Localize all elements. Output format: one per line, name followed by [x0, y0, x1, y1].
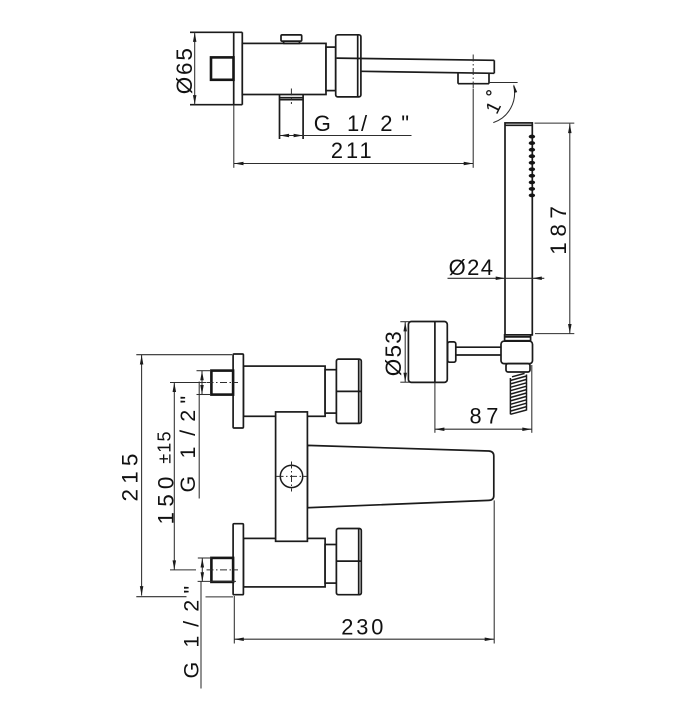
hand shower cap line — [505, 124, 532, 126]
dimension 187 extension top — [535, 122, 575, 124]
spout nut — [336, 35, 361, 97]
top valve nut — [336, 359, 361, 423]
top valve body — [243, 366, 325, 416]
top handle centerline — [207, 382, 239, 384]
dimension G 1/2 top view line — [280, 135, 412, 137]
svg-text:Ø65: Ø65 — [172, 46, 197, 94]
wall flange edge — [241, 32, 243, 104]
spout outlet left — [457, 73, 459, 84]
bottom valve connector — [325, 545, 336, 584]
top handle front — [211, 371, 233, 395]
dimension phi65 line — [194, 32, 196, 104]
dimension 150 line — [173, 383, 175, 570]
inlet pipe centerline — [290, 89, 292, 105]
dimension G 1/2 top valve ext — [197, 370, 211, 372]
central body — [276, 412, 308, 541]
handle top edge — [190, 31, 242, 33]
escutcheon inner line — [434, 322, 436, 383]
svg-text:G1/2": G1/2" — [176, 396, 200, 493]
dimension phi53 line — [404, 322, 406, 382]
dimension 230 line — [234, 638, 494, 640]
dimension 187 line — [569, 124, 571, 334]
svg-text:±15: ±15 — [154, 430, 174, 464]
dimension phi24 line — [448, 277, 545, 279]
tub spout front — [307, 445, 493, 507]
dimension 87 ext left — [434, 382, 436, 432]
dimension G 1/2 bottom valve line — [201, 558, 203, 582]
dimension 150 ext top — [170, 382, 206, 384]
bracket arm — [455, 346, 501, 348]
svg-text:211: 211 — [331, 138, 375, 163]
dimension 211 extension right — [472, 89, 474, 168]
mounting crosshair circle — [280, 465, 302, 487]
handle back edge — [233, 32, 235, 104]
dimension 87 ext right — [531, 365, 533, 433]
flexible hose spring — [510, 373, 526, 414]
hose nut — [506, 364, 530, 372]
mixer body — [242, 43, 326, 94]
angle reference line — [489, 82, 518, 84]
dimension 187 extension bottom — [535, 333, 574, 335]
dimension 215 ext top — [136, 354, 232, 356]
spout outlet bottom — [458, 83, 489, 85]
svg-text:150: 150 — [154, 471, 179, 524]
svg-text:87: 87 — [470, 404, 503, 429]
outlet connector — [326, 47, 336, 91]
degree circle — [487, 91, 491, 95]
spray nozzles — [529, 135, 535, 198]
svg-text:187: 187 — [546, 200, 571, 254]
bottom valve body — [243, 538, 325, 587]
dimension G 1/2 top valve line — [201, 371, 203, 395]
inlet pipe thread collar — [280, 97, 304, 99]
svg-text:G1/2": G1/2" — [179, 586, 203, 679]
dimension phi53 ext lines — [400, 321, 409, 323]
wall escutcheon phi53 — [408, 322, 447, 383]
spout bottom edge — [361, 71, 494, 73]
spout outlet right — [488, 73, 490, 84]
bottom handle front — [211, 558, 233, 582]
inlet pipe left — [279, 95, 281, 140]
spout top edge — [337, 58, 495, 60]
bottom handle centerline — [207, 569, 239, 571]
svg-text:Ø53: Ø53 — [381, 330, 406, 376]
tube collar — [505, 335, 531, 341]
svg-text:1: 1 — [482, 98, 507, 117]
dimension 230 ext right — [493, 500, 495, 643]
dimension 211 extension left — [233, 105, 235, 168]
handle bottom edge — [190, 104, 242, 106]
diverter knob neck — [283, 41, 300, 43]
dimension 150 ext bottom — [170, 569, 196, 571]
svg-text:G1/2": G1/2" — [314, 111, 409, 136]
spout tip edge — [493, 60, 495, 73]
svg-text:Ø24: Ø24 — [449, 255, 495, 280]
dimension 230 ext left — [233, 596, 235, 644]
top valve connector — [325, 370, 336, 413]
dimension 215 line — [141, 355, 143, 596]
svg-text:215: 215 — [118, 448, 143, 501]
dimension 215 ext bottom — [136, 596, 186, 598]
shower holder block — [501, 341, 533, 363]
inlet pipe right — [302, 95, 304, 140]
dimension 87 line — [435, 428, 532, 430]
bottom valve nut — [336, 529, 361, 595]
svg-text:230: 230 — [341, 615, 386, 640]
dimension 211 line — [234, 163, 473, 165]
handle square boss — [211, 57, 234, 79]
arm end block — [448, 342, 456, 362]
spout nut inner line — [357, 35, 359, 97]
angle arc arrow — [514, 84, 518, 93]
angle arc — [493, 86, 514, 123]
outlet centerline — [472, 55, 474, 90]
dimension G 1/2 bottom valve ext — [198, 557, 212, 559]
top wall flange — [233, 354, 243, 428]
hand shower tube — [505, 123, 532, 335]
bottom wall flange — [233, 524, 243, 595]
diverter knob cap — [281, 35, 302, 41]
